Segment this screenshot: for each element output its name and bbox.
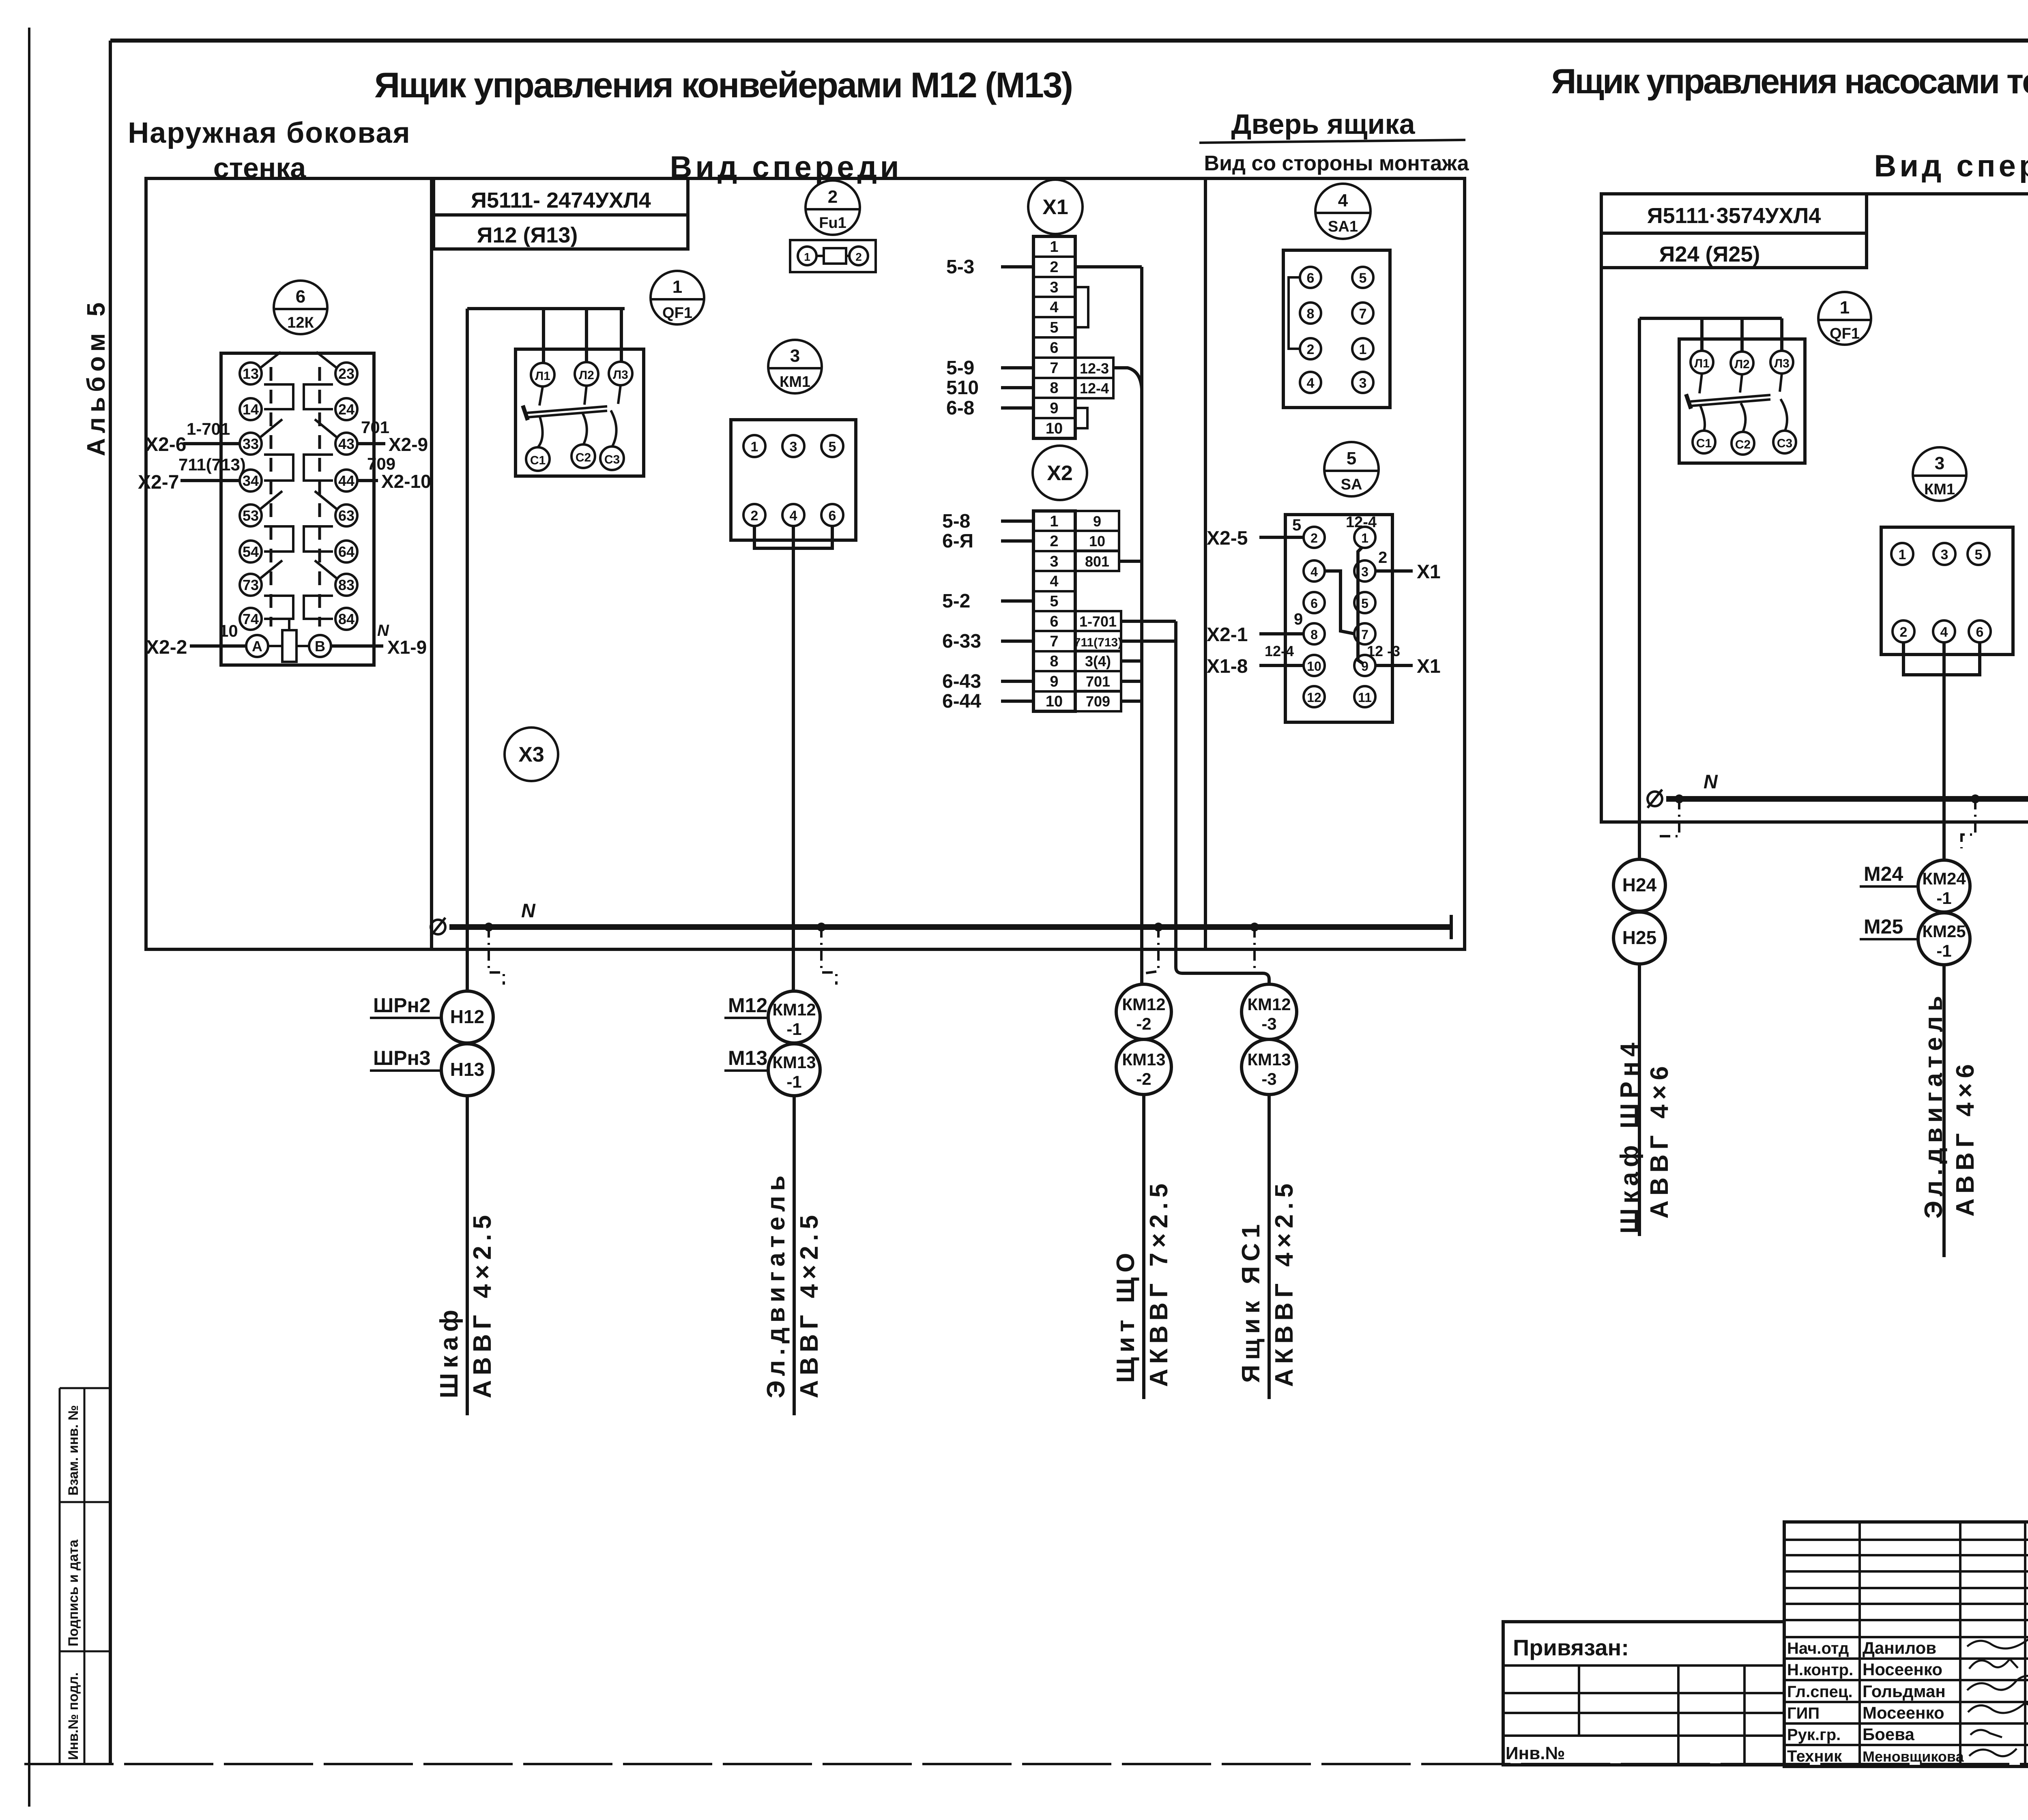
relay 12K contact block [221, 353, 374, 665]
SA pin 4 [1304, 560, 1325, 582]
cable type АВВГ 4х2.5 [468, 1210, 496, 1398]
svg-text:Л1: Л1 [1694, 357, 1710, 370]
net label 12-3 at X1:7 [1075, 358, 1113, 378]
cable circles Н24 / Н25 [1613, 859, 1665, 964]
svg-text:Мосеенко: Мосеенко [1863, 1703, 1944, 1722]
net label 5-8 at X2:1 [942, 511, 1033, 532]
left half enclosure box [146, 178, 1465, 949]
wire X2:7 (711) to riser B [1121, 640, 1176, 643]
wire X1-8 to SA pin 10 [1207, 656, 1304, 677]
staff row Н.контр. Носеенко [1787, 1660, 1942, 1679]
signature Носеенко [1969, 1659, 2018, 1669]
wire X2-1 to SA pin 8 [1207, 624, 1304, 646]
relay 12K contact (left pair) [260, 419, 293, 481]
relay 12K pin 54 [240, 541, 262, 562]
signature Данилов [1967, 1633, 2028, 1648]
junction dot (H12 tap) [484, 923, 493, 931]
wire: КМ1 right pin 4 drop to КМ24-1 [1942, 642, 1946, 861]
label: Вид спереди (right) [1874, 149, 2028, 183]
SA pin 6 [1304, 592, 1325, 613]
svg-text:8: 8 [1307, 306, 1315, 322]
cable name Щит ЩО [1112, 1248, 1140, 1383]
svg-text:Инв.№ подл.: Инв.№ подл. [66, 1672, 81, 1760]
svg-text:Х2-9: Х2-9 [389, 434, 428, 455]
svg-text:6: 6 [1050, 339, 1058, 356]
svg-text:10: 10 [1046, 693, 1063, 710]
svg-text:С2: С2 [576, 451, 591, 464]
relay 12K pin 14 [240, 398, 262, 420]
svg-text:QF1: QF1 [662, 305, 692, 322]
cable name Шкаф ШРн4 [1616, 1038, 1643, 1234]
relay 12K pin 43 [335, 433, 357, 455]
wire X2:6 (1-701) to riser B [1121, 620, 1176, 623]
svg-text:5-8: 5-8 [942, 511, 970, 532]
svg-text:6-8: 6-8 [946, 397, 974, 419]
relay 12K pin B [309, 635, 331, 657]
wire: phase drop 2 into QF1 [585, 309, 588, 363]
svg-text:Наружная боковая: Наружная боковая [128, 117, 410, 149]
svg-text:43: 43 [338, 436, 354, 452]
svg-text:7: 7 [1359, 306, 1367, 322]
svg-text:54: 54 [243, 543, 259, 560]
staff row Нач.отд Данилов [1787, 1638, 1936, 1657]
cable name Ящик ЯС1 [1237, 1219, 1265, 1383]
SA1 pin 2 [1300, 338, 1321, 359]
svg-text:1-701: 1-701 [187, 419, 230, 438]
svg-text:ГИП: ГИП [1787, 1704, 1820, 1722]
label Инв.№ [1506, 1743, 1565, 1763]
svg-text:5: 5 [1359, 270, 1367, 286]
QF1 pin С3 [600, 446, 624, 470]
svg-text:Fu1: Fu1 [819, 215, 846, 232]
breaker QF1 designator (right) [1818, 292, 1871, 345]
svg-text:Ящик ЯС1: Ящик ЯС1 [1237, 1219, 1265, 1383]
vertical label: Альбом 5 [82, 298, 110, 456]
divider wall/front [430, 178, 433, 949]
svg-text:4: 4 [1310, 564, 1318, 579]
type table Я5111-3574УХЛ4 / Я24(Я25) [1601, 194, 1867, 268]
svg-text:АВВГ 4×6: АВВГ 4×6 [1951, 1059, 1979, 1217]
svg-text:6: 6 [1310, 596, 1318, 611]
staff row ГИП Мосеенко [1787, 1703, 1944, 1722]
QF1 right pole curves to С pins [1700, 399, 1787, 432]
svg-text:QF1: QF1 [1830, 325, 1860, 342]
svg-text:2: 2 [1310, 531, 1318, 545]
svg-text:1: 1 [1050, 238, 1058, 255]
svg-text:709: 709 [1086, 693, 1110, 710]
junction dot (КМ12-2 tap) [1154, 923, 1163, 931]
svg-text:7: 7 [1050, 360, 1058, 377]
net label 12-4 at X1:8 [1075, 378, 1113, 398]
cable type АКВВГ 7х2.5 [1145, 1179, 1173, 1387]
svg-text:10: 10 [1307, 659, 1321, 674]
svg-text:8: 8 [1310, 627, 1318, 642]
svg-text:9: 9 [1050, 400, 1058, 417]
divider front/door [1204, 178, 1207, 949]
svg-text:ШРн3: ШРн3 [373, 1047, 431, 1069]
wire: feed down to Н24 cable [1638, 318, 1641, 860]
svg-text:3: 3 [1050, 279, 1058, 296]
title: Ящик управления конвейерами М12 (М13) [374, 65, 1072, 105]
QF1 right crossbar and handle [1686, 394, 1770, 409]
svg-text:КМ1: КМ1 [1924, 481, 1955, 498]
SA1 pin 1 [1352, 338, 1373, 359]
КМ1 right pin 4 [1933, 620, 1955, 642]
type table Я5111-2474УХЛ4 / Я12(Я13) [434, 178, 688, 249]
svg-text:701: 701 [361, 418, 389, 437]
svg-text:SА1: SА1 [1328, 218, 1358, 235]
relay 12K contact (right pair) [304, 352, 337, 409]
svg-text:-1: -1 [1936, 889, 1951, 908]
signature Мосеенко [1968, 1703, 2028, 1713]
svg-text:Х2-5: Х2-5 [1207, 528, 1248, 549]
QF1 right pin С1 [1693, 431, 1715, 453]
svg-text:5: 5 [1050, 319, 1058, 336]
wire: КМ1 output link 2-4-6 [754, 526, 832, 548]
main frame top edge [110, 39, 2028, 43]
relay 12K designator circle 6/12К [274, 281, 327, 334]
wire SA pin 3 to X1 [1375, 561, 1441, 583]
svg-text:1: 1 [751, 439, 758, 455]
relay 12K pin 74 [240, 608, 262, 630]
sheet left edge line [28, 28, 30, 1807]
title block: staff table frame [1784, 1522, 2028, 1766]
dash-dot N drop to КМ12-3 [1253, 927, 1256, 972]
wire X2:3 (801) to riser A [1119, 560, 1142, 563]
svg-text:-2: -2 [1136, 1069, 1151, 1088]
svg-text:М13: М13 [728, 1047, 767, 1069]
cable type АКВВГ 4х2.5 [1270, 1179, 1298, 1387]
strip label: Подпись и дата [66, 1539, 81, 1646]
relay 12K contact (right pair) [304, 491, 337, 552]
svg-text:Л3: Л3 [1774, 357, 1790, 370]
connector X3 designator [505, 728, 558, 781]
svg-text:5: 5 [1975, 547, 1983, 562]
relay 12K pin 64 [335, 541, 357, 562]
svg-text:4: 4 [1338, 191, 1348, 210]
relay 12K contact (left pair) [260, 352, 293, 409]
svg-text:Я5111- 2474УХЛ4: Я5111- 2474УХЛ4 [471, 188, 651, 212]
relay 12K pin 53 [240, 504, 262, 526]
svg-text:КМ13: КМ13 [1247, 1050, 1291, 1069]
relay 12K pin 23 [335, 363, 357, 384]
title: Ящик управления насосами технической Воды М24,(М25) [1551, 62, 2028, 101]
PE symbol (right) [1648, 790, 1662, 808]
svg-text:4: 4 [1940, 625, 1948, 640]
SA pin 7 [1354, 623, 1375, 644]
cable label ШРн2 [370, 994, 441, 1018]
wire: phase drop 1 into QF1 [542, 309, 545, 363]
SA1 pin 6 [1300, 267, 1321, 288]
КМ1 pin 6 [821, 504, 843, 526]
svg-text:-2: -2 [1136, 1014, 1151, 1033]
svg-text:-1: -1 [786, 1072, 801, 1091]
svg-text:Эл.двигатель: Эл.двигатель [762, 1171, 790, 1398]
SA pin 3 [1354, 560, 1375, 582]
jumper SA1 6-2 [1289, 277, 1300, 349]
svg-text:Л2: Л2 [1734, 358, 1750, 371]
svg-text:1: 1 [1359, 342, 1367, 357]
QF1 right pin Л2 [1731, 352, 1753, 374]
relay 12K contact (left pair) [260, 491, 293, 552]
net value 3(4) at X2:8 [1075, 651, 1121, 671]
cable circles КМ24-1 / КМ25-1 [1918, 860, 1970, 965]
signature Боева [1970, 1730, 2002, 1737]
SA small label 5 [1292, 516, 1301, 534]
svg-text:6: 6 [296, 287, 305, 307]
SA1 pin 4 [1300, 372, 1321, 393]
svg-text:4: 4 [790, 508, 797, 524]
junction dot (КМ12-1 tap) [817, 923, 826, 931]
svg-text:Я24 (Я25): Я24 (Я25) [1659, 242, 1760, 266]
SA pin 1 [1354, 527, 1375, 548]
relay 12K pin 24 [335, 398, 357, 420]
svg-text:83: 83 [338, 577, 354, 593]
terminal strip X1 (left) [1033, 236, 1075, 438]
svg-text:N: N [377, 622, 389, 640]
cable circles КМ12-2 / КМ13-2 [1116, 984, 1171, 1095]
wire riser B down and over to КМ12-3 [1176, 621, 1269, 985]
svg-text:КМ24: КМ24 [1922, 869, 1966, 888]
net label 5-9 at X1:7 [946, 357, 1033, 379]
net value 709 at X2:10 [1075, 691, 1121, 711]
wire X2-2 to pin A [146, 621, 246, 658]
net value 10 at X2:2 [1075, 531, 1119, 551]
breaker QF1 box (right) [1679, 339, 1805, 463]
svg-text:2: 2 [1378, 549, 1387, 567]
svg-text:КМ1: КМ1 [780, 373, 810, 391]
svg-text:Боева: Боева [1863, 1725, 1914, 1744]
svg-text:Н25: Н25 [1622, 927, 1656, 948]
svg-text:Х3: Х3 [518, 743, 544, 766]
SA pin 5 [1354, 592, 1375, 613]
wire: feed bus above QF1 (right) [1639, 317, 1782, 320]
SA small label 12-4 (top right) [1346, 514, 1377, 531]
QF1 right pin Л3 [1770, 351, 1793, 373]
svg-text:3: 3 [1359, 376, 1367, 391]
QF1 pole stubs [539, 385, 621, 406]
svg-text:АВВГ 4×6: АВВГ 4×6 [1646, 1061, 1674, 1219]
net value 1-701 at X2:6 [1075, 611, 1121, 631]
svg-text:12-4: 12-4 [1080, 380, 1109, 397]
svg-text:2: 2 [751, 508, 758, 524]
svg-text:1: 1 [672, 277, 682, 297]
svg-text:10: 10 [1089, 533, 1105, 549]
relay 12K contact (right pair) [304, 419, 337, 481]
QF1 right pin С2 [1732, 432, 1754, 455]
svg-text:Щит ЩО: Щит ЩО [1112, 1248, 1140, 1383]
svg-text:12-3: 12-3 [1080, 360, 1109, 377]
svg-text:Х1: Х1 [1042, 195, 1068, 219]
svg-text:-3: -3 [1261, 1069, 1276, 1088]
svg-text:Гольдман: Гольдман [1863, 1682, 1946, 1701]
contactor КМ1 designator (right) [1913, 447, 1966, 501]
svg-text:Х2-6: Х2-6 [145, 434, 186, 455]
КМ1 right pin 1 [1891, 543, 1913, 565]
svg-text:АКВВГ 7×2.5: АКВВГ 7×2.5 [1145, 1179, 1173, 1387]
QF1 pin С2 [571, 444, 595, 468]
svg-text:Вид со стороны монтажа: Вид со стороны монтажа [1204, 152, 1469, 175]
SA small label 2 [1378, 549, 1387, 567]
svg-text:А: А [252, 638, 262, 655]
svg-text:Х2-7: Х2-7 [138, 472, 179, 493]
net value 9 at X2:1 [1075, 511, 1119, 531]
КМ1 pin 2 [743, 504, 765, 526]
jumper X1:9-10 [1075, 408, 1087, 428]
svg-text:Привязан:: Привязан: [1513, 1635, 1629, 1660]
КМ1 right pin 2 [1893, 620, 1914, 642]
switch SA1 designator circle 4/SA1 [1315, 184, 1371, 239]
staff row Техник Меновщикова [1787, 1747, 1964, 1765]
cable line Щит ЩО [1142, 1095, 1145, 1399]
svg-text:КМ25: КМ25 [1922, 922, 1966, 941]
svg-text:709: 709 [367, 454, 395, 473]
relay 12K pin 73 [240, 574, 262, 596]
svg-text:N: N [521, 900, 536, 922]
label: Дверь ящика (left) [1199, 108, 1465, 143]
svg-text:64: 64 [338, 543, 354, 560]
cable label М12 [724, 994, 768, 1018]
svg-text:12-4: 12-4 [1265, 643, 1294, 659]
net value 701 at X2:9 [1075, 671, 1121, 691]
svg-text:23: 23 [338, 365, 354, 382]
svg-text:12 -3: 12 -3 [1367, 643, 1400, 659]
signature Гольдман [1967, 1676, 2028, 1690]
contactor КМ1 box [731, 420, 856, 540]
svg-text:Х2: Х2 [1047, 461, 1073, 485]
svg-text:3(4): 3(4) [1085, 653, 1111, 670]
relay 12K pin 33 [240, 433, 262, 455]
svg-text:1: 1 [804, 251, 810, 263]
svg-text:10: 10 [1046, 420, 1063, 437]
svg-text:Л2: Л2 [579, 369, 594, 382]
cable circles КМ12-1 / КМ13-1 [768, 991, 820, 1096]
net label 6-Я at X2:2 [942, 530, 1033, 552]
QF1 pin Л3 [609, 362, 632, 385]
svg-text:44: 44 [338, 472, 354, 489]
wire: КМ1 pin 4 drop to КМ12-1 cable [792, 526, 795, 992]
svg-text:63: 63 [338, 507, 354, 524]
svg-text:М12: М12 [728, 994, 767, 1017]
svg-text:С1: С1 [530, 454, 546, 467]
SA1 pin 3 [1352, 372, 1373, 393]
SA1 pin 7 [1352, 303, 1373, 324]
dash-dot N drop to КМ12-1 [821, 927, 836, 985]
signature Меновщикова [1969, 1749, 2017, 1756]
QF1 pole curves to С pins [538, 410, 617, 447]
breaker QF1 box [516, 349, 644, 476]
svg-text:С1: С1 [1696, 437, 1712, 450]
КМ1 right pin 3 [1933, 543, 1955, 565]
svg-text:1: 1 [1050, 513, 1058, 530]
cable line Ящик ЯС1 [1267, 1095, 1271, 1399]
svg-text:КМ12: КМ12 [772, 1000, 816, 1019]
svg-text:Нач.отд: Нач.отд [1787, 1640, 1849, 1657]
relay 12K pin 34 [240, 470, 262, 491]
svg-text:5: 5 [829, 439, 836, 455]
net label 5-3 at X1:2 [946, 256, 1033, 278]
wire: КМ1 right output link 2-4-6 [1903, 642, 1980, 675]
sheet bottom line [24, 1763, 2028, 1765]
cable line Эл.двигатель (right) [1942, 965, 1946, 1257]
svg-text:5: 5 [1361, 596, 1368, 611]
SA pin 2 [1304, 527, 1325, 548]
svg-text:801: 801 [1085, 553, 1109, 570]
SA internal wire 1 to 9 [1358, 547, 1363, 663]
svg-text:10: 10 [219, 621, 238, 640]
wire: phase drop 3 into QF1 [620, 309, 623, 362]
svg-text:701: 701 [1086, 673, 1110, 690]
net N bus (left half) [449, 915, 1451, 939]
svg-text:1: 1 [1840, 298, 1850, 318]
svg-text:Х1-8: Х1-8 [1207, 656, 1248, 677]
svg-text:Л1: Л1 [535, 369, 550, 383]
svg-text:1: 1 [1899, 547, 1906, 562]
svg-text:С3: С3 [1777, 437, 1792, 450]
dash-dot N drop to Н24 [1656, 799, 1679, 836]
bound table Привязан [1503, 1622, 1784, 1765]
relay 12K coil [268, 620, 309, 662]
svg-text:2: 2 [828, 187, 838, 207]
svg-text:АВВГ 4×2.5: АВВГ 4×2.5 [795, 1210, 823, 1398]
svg-text:ШРн2: ШРн2 [373, 994, 431, 1017]
wire X2:9 (701) stub to riser A [1121, 680, 1142, 683]
dash-dot N drop to КМ12-2 [1145, 927, 1158, 973]
wire X2-6 to pin 33 [145, 419, 240, 455]
fuse Fu1 holder [790, 240, 876, 272]
svg-text:6-Я: 6-Я [942, 530, 973, 552]
svg-text:33: 33 [243, 436, 259, 452]
КМ1 right pin 6 [1969, 620, 1991, 642]
svg-text:74: 74 [243, 611, 259, 627]
svg-text:-1: -1 [786, 1019, 801, 1039]
svg-text:Дверь ящика: Дверь ящика [1231, 108, 1415, 140]
svg-text:М24: М24 [1864, 863, 1903, 885]
svg-text:Взам. инв. №: Взам. инв. № [66, 1405, 81, 1496]
QF1 breaker crossbar and handle [523, 406, 607, 420]
КМ1 pin 3 [782, 435, 804, 457]
svg-text:Эл.двигатель: Эл.двигатель [1920, 991, 1948, 1219]
wire: phase drops into QF1 (right) [1702, 318, 1782, 352]
svg-text:12: 12 [1307, 690, 1321, 705]
SA1 pin 8 [1300, 303, 1321, 324]
svg-text:3: 3 [1941, 547, 1949, 562]
svg-text:С2: С2 [1735, 438, 1751, 451]
svg-text:Ящик управления конвейерами М1: Ящик управления конвейерами М12 (М13) [374, 65, 1072, 105]
SA pin 8 [1304, 623, 1325, 644]
svg-text:Шкаф: Шкаф [435, 1305, 463, 1398]
svg-text:Шкаф ШРн4: Шкаф ШРн4 [1616, 1038, 1643, 1234]
net label 6-33 at X2:7 [942, 631, 1033, 652]
svg-text:5-2: 5-2 [942, 590, 970, 612]
SA pin 9 [1354, 655, 1375, 676]
SA internal wire 4 to 7 [1325, 571, 1355, 634]
label: Наружная боковая стенка [128, 117, 410, 184]
svg-text:4: 4 [1050, 573, 1058, 590]
net label 6-43 at X2:9 [942, 671, 1033, 692]
svg-text:В: В [315, 638, 325, 655]
svg-text:12-4: 12-4 [1346, 514, 1377, 531]
svg-text:-1: -1 [1936, 941, 1951, 960]
staff row Гл.спец. Гольдман [1787, 1682, 1946, 1701]
svg-text:7: 7 [1361, 627, 1368, 642]
svg-text:Н24: Н24 [1622, 874, 1657, 895]
staff row Рук.гр. Боева [1787, 1725, 1914, 1744]
svg-text:6-44: 6-44 [942, 691, 981, 712]
cable circles Н12 / Н13 [441, 991, 493, 1096]
svg-text:SА: SА [1341, 476, 1362, 493]
cable name Эл.двигатель [762, 1171, 790, 1398]
